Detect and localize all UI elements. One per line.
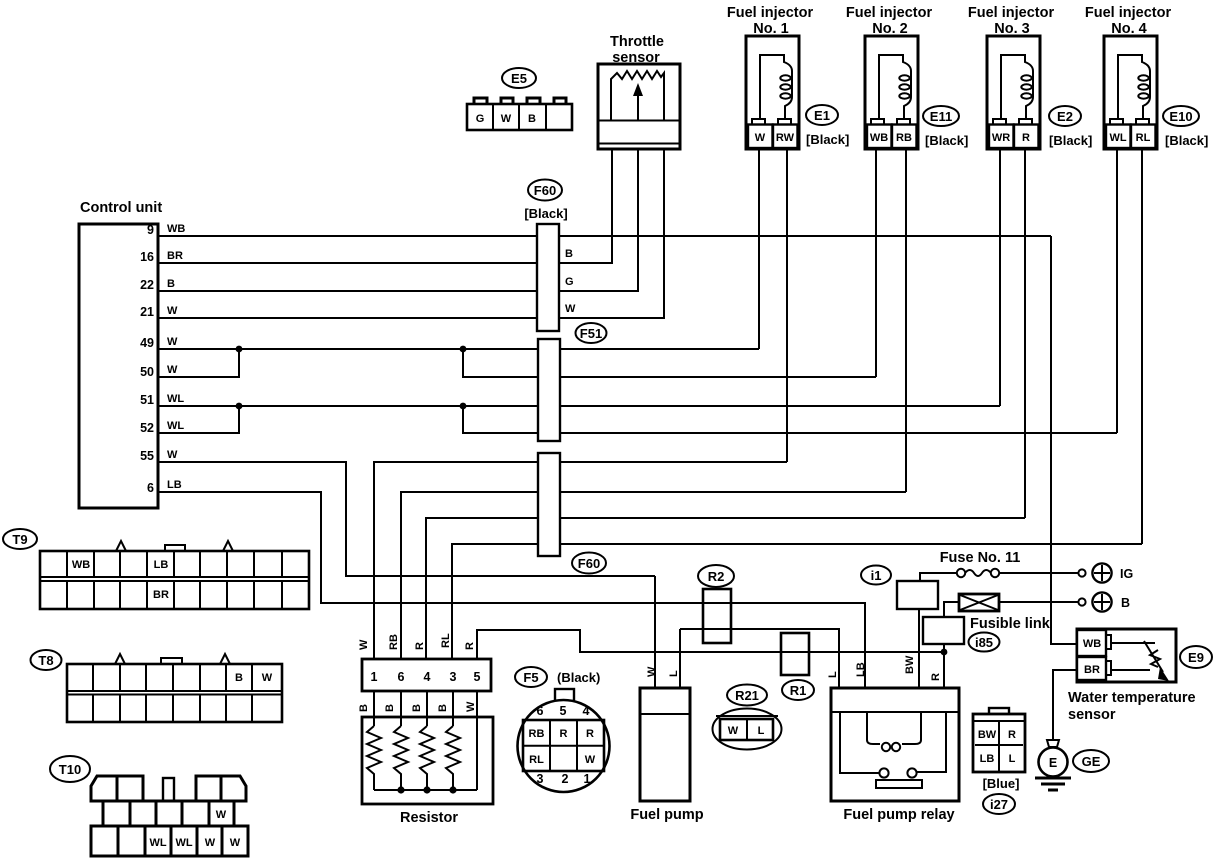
svg-text:W: W — [167, 364, 178, 376]
svg-text:E10: E10 — [1169, 109, 1192, 124]
R2 LB wire re-draw over bar — [703, 602, 731, 604]
wire injector1 RW to resistor pin1 — [374, 462, 787, 659]
svg-text:R1: R1 — [790, 683, 807, 698]
svg-text:BW: BW — [904, 655, 916, 674]
svg-text:i85: i85 — [975, 635, 993, 650]
connector E5 — [467, 68, 572, 130]
wire pin52 WL row — [158, 406, 239, 433]
wire injector3 R down — [1024, 149, 1026, 518]
svg-text:Fuel injector: Fuel injector — [846, 5, 933, 21]
svg-text:(Black): (Black) — [557, 670, 600, 685]
wire injector4 WL down — [1116, 149, 1118, 433]
svg-text:W: W — [465, 701, 477, 712]
svg-text:sensor: sensor — [612, 50, 660, 66]
svg-text:1: 1 — [371, 670, 378, 684]
svg-text:W: W — [216, 809, 227, 821]
svg-text:WB: WB — [167, 223, 185, 235]
connector T8 — [31, 650, 283, 722]
svg-text:Throttle: Throttle — [610, 34, 664, 50]
svg-text:RW: RW — [776, 132, 795, 144]
svg-text:B: B — [384, 704, 396, 712]
svg-text:W: W — [167, 449, 178, 461]
fusible link — [944, 594, 1078, 632]
svg-text:B: B — [167, 278, 175, 290]
svg-text:W: W — [565, 303, 576, 315]
wire pin51 WL row — [158, 393, 1000, 406]
svg-text:T10: T10 — [59, 762, 81, 777]
svg-text:[Black]: [Black] — [1165, 133, 1208, 148]
wire injector3 WR down — [999, 149, 1001, 406]
svg-text:22: 22 — [140, 278, 154, 292]
svg-text:W: W — [755, 132, 766, 144]
wire resistor pin5 to relay R — [477, 630, 944, 659]
throttle sensor box — [598, 34, 680, 149]
svg-text:21: 21 — [140, 305, 154, 319]
svg-text:T9: T9 — [12, 532, 27, 547]
wire injector2 RB to resistor pin6 — [401, 492, 906, 659]
svg-text:5: 5 — [474, 670, 481, 684]
wire pin6 LB row — [158, 479, 865, 688]
svg-text:BR: BR — [167, 250, 183, 262]
svg-text:W: W — [167, 336, 178, 348]
svg-text:E11: E11 — [930, 109, 952, 124]
svg-text:sensor: sensor — [1068, 707, 1116, 723]
svg-text:E2: E2 — [1057, 109, 1073, 124]
svg-text:B: B — [411, 704, 423, 712]
svg-text:[Black]: [Black] — [524, 206, 567, 221]
control unit pin numbers — [140, 223, 154, 495]
resistor pin header box 1 6 4 3 5 — [362, 659, 491, 691]
connector i1 — [861, 566, 938, 610]
svg-text:T8: T8 — [38, 653, 53, 668]
svg-text:55: 55 — [140, 449, 154, 463]
wire injector4 RL to resistor pin3 — [452, 544, 1142, 659]
svg-text:F60: F60 — [578, 556, 600, 571]
svg-text:B: B — [1121, 596, 1130, 610]
svg-text:WB: WB — [870, 132, 888, 144]
svg-text:6: 6 — [537, 704, 544, 718]
ground E — [1035, 740, 1109, 790]
svg-text:R: R — [1022, 132, 1030, 144]
svg-text:F51: F51 — [580, 326, 602, 341]
control unit U1 box — [79, 200, 162, 508]
svg-text:Fuel pump relay: Fuel pump relay — [843, 807, 954, 823]
wire pin55 W row — [158, 449, 655, 576]
throttle potentiometer — [611, 71, 664, 121]
wire B to throttle sensor — [559, 149, 612, 263]
svg-text:R: R — [930, 673, 942, 681]
wire injector2 WB down — [875, 149, 877, 377]
svg-text:BR: BR — [153, 589, 169, 601]
wire pin50 branch to injector2 — [463, 349, 876, 377]
svg-text:RL: RL — [440, 633, 452, 648]
connector R21 round — [713, 685, 782, 750]
svg-text:R21: R21 — [735, 688, 759, 703]
svg-text:W: W — [262, 672, 273, 684]
svg-text:L: L — [668, 670, 680, 677]
wire pin16 BR row — [158, 250, 612, 263]
svg-text:WR: WR — [992, 132, 1010, 144]
svg-text:i27: i27 — [990, 797, 1008, 812]
wire i85 to relay R with junction — [941, 644, 948, 688]
svg-text:W: W — [728, 725, 739, 737]
resistor lead wires B B B B W — [358, 691, 477, 790]
fuel injector No.1 — [727, 5, 814, 149]
svg-text:LB: LB — [980, 753, 995, 765]
svg-text:RB: RB — [529, 728, 545, 740]
svg-text:[Black]: [Black] — [806, 132, 849, 147]
svg-text:BW: BW — [978, 729, 997, 741]
svg-text:[Black]: [Black] — [1049, 133, 1092, 148]
svg-text:52: 52 — [140, 421, 154, 435]
svg-text:RL: RL — [529, 754, 544, 766]
connector i27 — [973, 708, 1025, 814]
svg-text:E5: E5 — [511, 71, 527, 86]
svg-text:4: 4 — [583, 704, 590, 718]
svg-text:R: R — [414, 642, 426, 650]
connector label E10 — [1163, 106, 1208, 148]
svg-text:B: B — [528, 113, 536, 125]
svg-text:Control unit: Control unit — [80, 200, 162, 216]
wire pin52 branch to injector4 — [463, 406, 1117, 433]
connector T10 — [50, 756, 248, 856]
svg-text:i1: i1 — [871, 568, 882, 583]
svg-text:F60: F60 — [534, 183, 556, 198]
wire injector1 RW down — [786, 149, 788, 462]
svg-text:Fuel pump: Fuel pump — [630, 807, 703, 823]
svg-text:G: G — [565, 276, 574, 288]
fuel injector No.4 — [1085, 5, 1172, 149]
fuel pump — [630, 576, 703, 823]
B terminal — [1078, 592, 1130, 611]
svg-text:16: 16 — [140, 250, 154, 264]
svg-text:E1: E1 — [814, 108, 830, 123]
connector F5 — [515, 667, 610, 792]
svg-text:GE: GE — [1082, 754, 1101, 769]
svg-text:R2: R2 — [708, 569, 725, 584]
svg-text:WL: WL — [175, 837, 192, 849]
wire pin50 W row — [158, 349, 239, 377]
connector R1 — [781, 633, 814, 700]
svg-text:IG: IG — [1120, 567, 1133, 581]
svg-text:W: W — [167, 305, 178, 317]
svg-text:F5: F5 — [523, 670, 538, 685]
wire pin49 W row — [158, 336, 759, 349]
svg-text:2: 2 — [562, 772, 569, 786]
svg-text:L: L — [827, 671, 839, 678]
connector i85 — [923, 617, 1000, 652]
svg-text:L: L — [1009, 753, 1016, 765]
resistor R box with 4 elements — [362, 717, 493, 826]
IG terminal — [1078, 563, 1133, 582]
svg-text:49: 49 — [140, 336, 154, 350]
svg-text:W: W — [230, 837, 241, 849]
connector F51 bar — [538, 323, 607, 441]
wire G to throttle sensor — [559, 149, 638, 291]
svg-text:B: B — [358, 704, 370, 712]
svg-text:LB: LB — [167, 479, 182, 491]
svg-text:Resistor: Resistor — [400, 810, 458, 826]
svg-text:Fusible link: Fusible link — [970, 616, 1051, 632]
svg-text:RL: RL — [1136, 132, 1151, 144]
svg-text:6: 6 — [147, 481, 154, 495]
connector label E11 — [923, 106, 968, 148]
svg-text:R: R — [560, 728, 568, 740]
svg-text:RB: RB — [896, 132, 912, 144]
svg-text:B: B — [437, 704, 449, 712]
wire injector3 R to resistor pin4 — [426, 518, 1025, 659]
svg-text:W: W — [585, 754, 596, 766]
wire injector4 RL down — [1141, 149, 1143, 544]
junction dots control unit branches — [236, 346, 467, 410]
resistor wire labels W RB R RL R — [358, 633, 476, 650]
svg-text:W: W — [205, 837, 216, 849]
wire WB main vertical to water temp sensor — [1051, 236, 1077, 644]
wire pin22 B row — [158, 278, 638, 291]
svg-text:9: 9 — [147, 223, 154, 237]
svg-text:W: W — [358, 639, 370, 650]
wire fuel pump L to relay L — [680, 629, 839, 688]
svg-text:E9: E9 — [1188, 650, 1204, 665]
wire pin9 WB row — [158, 223, 1051, 236]
svg-text:WL: WL — [1109, 132, 1126, 144]
connector R2 — [698, 565, 734, 643]
svg-text:R: R — [1008, 729, 1016, 741]
svg-text:Water temperature: Water temperature — [1068, 690, 1196, 706]
svg-text:[Black]: [Black] — [925, 133, 968, 148]
svg-text:WB: WB — [1083, 638, 1101, 650]
wire W to throttle sensor — [559, 149, 664, 318]
connector F60 top bar — [524, 180, 567, 332]
svg-text:R: R — [464, 642, 476, 650]
svg-text:RB: RB — [388, 634, 400, 650]
connector label E2 — [1049, 106, 1092, 148]
svg-text:Fuel injector: Fuel injector — [968, 5, 1055, 21]
svg-text:1: 1 — [584, 772, 591, 786]
svg-text:Fuel injector: Fuel injector — [1085, 5, 1172, 21]
svg-text:3: 3 — [537, 772, 544, 786]
wire pin21 W row — [158, 305, 664, 318]
wire injector1 W down — [758, 149, 760, 349]
svg-text:3: 3 — [450, 670, 457, 684]
connector label E1 — [806, 105, 849, 147]
svg-text:G: G — [476, 113, 485, 125]
svg-text:B: B — [235, 672, 243, 684]
svg-text:[Blue]: [Blue] — [983, 776, 1020, 791]
R1 wire re-draw over bar — [781, 651, 809, 653]
svg-text:5: 5 — [560, 704, 567, 718]
fuel pump relay — [827, 655, 959, 823]
svg-text:WL: WL — [167, 420, 184, 432]
svg-text:Fuse No. 11: Fuse No. 11 — [940, 550, 1021, 566]
connector F60 bottom bar — [538, 453, 606, 574]
svg-text:LB: LB — [855, 662, 867, 677]
svg-text:W: W — [501, 113, 512, 125]
svg-text:L: L — [758, 725, 765, 737]
svg-text:B: B — [565, 248, 573, 260]
fuel injector No.2 — [846, 5, 933, 149]
wire injector2 RB down — [905, 149, 907, 492]
water temperature sensor — [1068, 629, 1212, 723]
svg-text:WL: WL — [149, 837, 166, 849]
svg-text:BR: BR — [1084, 664, 1100, 676]
svg-text:E: E — [1049, 756, 1057, 770]
svg-text:WB: WB — [72, 559, 90, 571]
svg-text:51: 51 — [140, 393, 154, 407]
svg-text:6: 6 — [398, 670, 405, 684]
svg-text:50: 50 — [140, 365, 154, 379]
svg-text:W: W — [646, 666, 658, 677]
svg-text:WL: WL — [167, 393, 184, 405]
wire BR to ground — [1053, 670, 1077, 740]
svg-text:LB: LB — [154, 559, 169, 571]
svg-text:Fuel injector: Fuel injector — [727, 5, 814, 21]
fuse No.11 — [920, 550, 1078, 581]
svg-text:R: R — [586, 728, 594, 740]
wire BW relay to i1 — [918, 609, 920, 688]
connector T9 — [3, 529, 309, 609]
fuel injector No.3 — [968, 5, 1055, 149]
svg-text:4: 4 — [424, 670, 431, 684]
